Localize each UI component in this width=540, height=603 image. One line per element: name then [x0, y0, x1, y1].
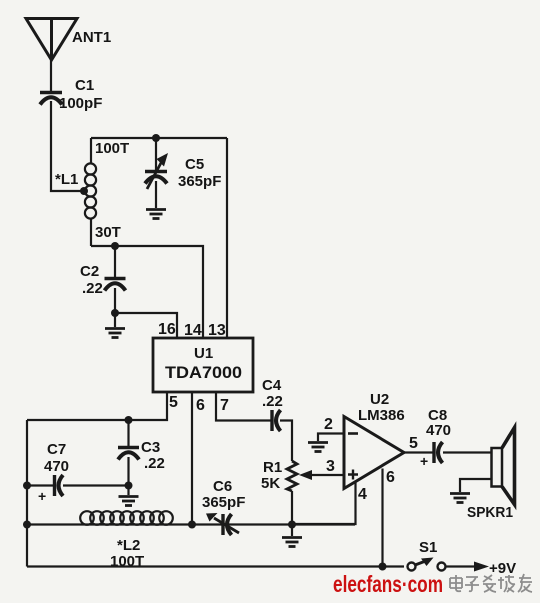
capacitor C7: [27, 441, 129, 504]
svg-text:S1: S1: [419, 539, 437, 556]
variable capacitor C5: [145, 138, 221, 208]
svg-text:C6: C6: [213, 478, 232, 495]
wire C4 to R1 top: [280, 421, 292, 462]
svg-text:U2: U2: [370, 391, 389, 408]
wire L1 top to pin 13 rail: [91, 137, 227, 139]
IC U1 TDA7000: [153, 338, 253, 392]
wire C1 to L1 tap: [51, 101, 84, 191]
node L2 right / pin 6 junction: [188, 521, 196, 529]
antenna ANT1: [26, 19, 111, 61]
op-amp U2 LM386: [344, 391, 405, 489]
svg-text:C1: C1: [75, 77, 94, 94]
svg-text:13: 13: [208, 322, 226, 339]
capacitor C4: [262, 377, 283, 431]
svg-text:*L1: *L1: [55, 171, 78, 188]
capacitor C1: [40, 77, 102, 112]
wire C8 to speaker: [443, 451, 492, 453]
variable capacitor C6: [202, 478, 245, 535]
svg-text:7: 7: [220, 397, 229, 414]
svg-text:TDA7000: TDA7000: [165, 364, 242, 382]
node C3 top: [125, 416, 133, 424]
wire pin 5 output: [404, 451, 433, 453]
node C7 left: [23, 482, 31, 490]
node 30T tap: [111, 242, 119, 250]
node R1 bottom: [288, 521, 296, 529]
ground R1: [282, 525, 302, 547]
svg-text:2: 2: [324, 416, 333, 433]
inductor L2: [27, 511, 355, 570]
svg-text:100pF: 100pF: [59, 95, 102, 112]
svg-text:+: +: [420, 453, 428, 469]
ground C2: [105, 313, 125, 338]
svg-text:470: 470: [44, 458, 69, 475]
svg-text:5K: 5K: [261, 475, 280, 492]
svg-text:3: 3: [326, 458, 335, 475]
svg-text:elecfans·com: elecfans·com: [333, 571, 443, 597]
wire pin 7 to C4: [216, 392, 271, 421]
node L2 left: [23, 521, 31, 529]
svg-text:+: +: [38, 488, 46, 504]
wire pin 6 to L2: [191, 392, 193, 525]
svg-text:C7: C7: [47, 441, 66, 458]
capacitor C2: [80, 246, 126, 313]
svg-text:5: 5: [169, 394, 178, 411]
svg-text:R1: R1: [263, 459, 282, 476]
speaker SPKR1: [467, 428, 515, 522]
svg-text:6: 6: [196, 397, 205, 414]
node C2 bottom: [111, 309, 119, 317]
svg-text:.22: .22: [82, 280, 103, 297]
svg-text:C3: C3: [141, 439, 160, 456]
wire node to U1 pin 16: [115, 313, 177, 338]
ground C3: [119, 486, 139, 506]
wire pin 6 of U2: [381, 469, 383, 567]
svg-text:ANT1: ANT1: [72, 29, 111, 46]
wire speaker to ground: [460, 479, 492, 492]
svg-text:14: 14: [184, 322, 202, 339]
wire L1 bottom to pin 14: [91, 246, 203, 338]
node U2 pin 6 bottom: [379, 563, 387, 571]
svg-text:*L2: *L2: [117, 537, 140, 554]
svg-text:365pF: 365pF: [178, 173, 221, 190]
ground speaker: [450, 494, 470, 503]
watermark chinese characters: [450, 574, 532, 592]
node C3 bottom: [125, 482, 133, 490]
svg-text:5: 5: [409, 435, 418, 452]
svg-text:30T: 30T: [95, 224, 121, 241]
potentiometer R1: [261, 459, 344, 525]
svg-text:.22: .22: [262, 393, 283, 410]
svg-text:LM386: LM386: [358, 407, 405, 424]
svg-text:U1: U1: [194, 345, 213, 362]
wire node to U1 pin 13: [226, 138, 228, 338]
watermark elecfans.com: [333, 571, 443, 597]
svg-text:6: 6: [386, 469, 395, 486]
capacitor C3: [118, 420, 165, 486]
node C5 top: [152, 134, 160, 142]
wire pin 4: [292, 482, 356, 524]
svg-text:365pF: 365pF: [202, 494, 245, 511]
capacitor C8: [426, 407, 451, 463]
svg-text:100T: 100T: [95, 140, 129, 157]
svg-text:C2: C2: [80, 263, 99, 280]
ground C5: [146, 210, 166, 219]
svg-text:.22: .22: [144, 455, 165, 472]
svg-text:+9V: +9V: [489, 560, 516, 577]
inductor L1: [55, 138, 96, 246]
svg-text:4: 4: [358, 486, 367, 503]
ground pin 2: [308, 443, 328, 452]
wire switch to +9V arrow: [446, 560, 516, 577]
wire pin 5 to left rail: [27, 392, 167, 420]
svg-text:C4: C4: [262, 377, 282, 394]
svg-text:470: 470: [426, 422, 451, 439]
node L1 tap: [80, 187, 88, 195]
wire pin 2: [318, 434, 344, 442]
switch S1: [408, 539, 446, 571]
svg-text:SPKR1: SPKR1: [467, 504, 513, 521]
wire antenna to C1: [50, 60, 52, 91]
bottom supply wire: [27, 565, 404, 567]
svg-text:C5: C5: [185, 156, 204, 173]
svg-text:16: 16: [158, 321, 176, 338]
left rail: [26, 420, 28, 567]
